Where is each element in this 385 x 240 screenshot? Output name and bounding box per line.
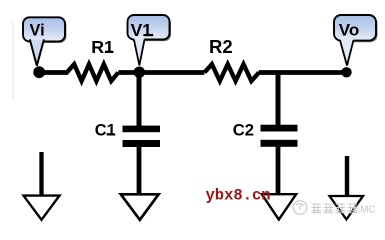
svg-text:V1: V1	[131, 20, 153, 40]
node Vi terminal dot	[33, 66, 45, 78]
callout bubble Vo	[334, 15, 378, 66]
resistor R1	[67, 64, 119, 81]
label C1	[95, 121, 116, 139]
wire R2 to Vo	[259, 70, 347, 75]
ground under C2	[262, 194, 296, 219]
svg-text:C1: C1	[95, 121, 116, 139]
floating ground lead under Vo	[345, 156, 349, 195]
watermark 韬路科技EMC	[312, 204, 358, 213]
wire Vi to R1	[39, 70, 68, 75]
capacitor C2	[261, 125, 298, 194]
wire R1 to R2 through node V1	[118, 70, 204, 75]
ground under Vo	[330, 196, 364, 219]
callout bubble Vi	[23, 17, 66, 66]
svg-text:Vo: Vo	[339, 20, 359, 39]
wire junction to C2	[276, 73, 281, 127]
node V1 junction dot	[134, 67, 145, 78]
svg-text:C2: C2	[233, 121, 254, 140]
floating ground lead under Vi	[39, 152, 43, 195]
svg-text:R2: R2	[209, 36, 233, 57]
faint scan line left	[12, 22, 14, 100]
ground under C1	[121, 194, 159, 220]
capacitor C1	[123, 126, 161, 194]
svg-text:EMC: EMC	[354, 205, 376, 216]
watermark logo circle	[293, 201, 307, 215]
wire node V1 down to C1	[137, 73, 142, 129]
svg-text:Vi: Vi	[30, 22, 45, 40]
svg-text:ybx8.cn: ybx8.cn	[206, 187, 271, 205]
resistor R2	[205, 64, 260, 81]
svg-text:R1: R1	[91, 37, 114, 57]
node Vo terminal dot	[341, 67, 351, 77]
ground under Vi	[24, 196, 60, 220]
label R1	[91, 37, 114, 57]
callout bubble V1	[128, 15, 172, 65]
